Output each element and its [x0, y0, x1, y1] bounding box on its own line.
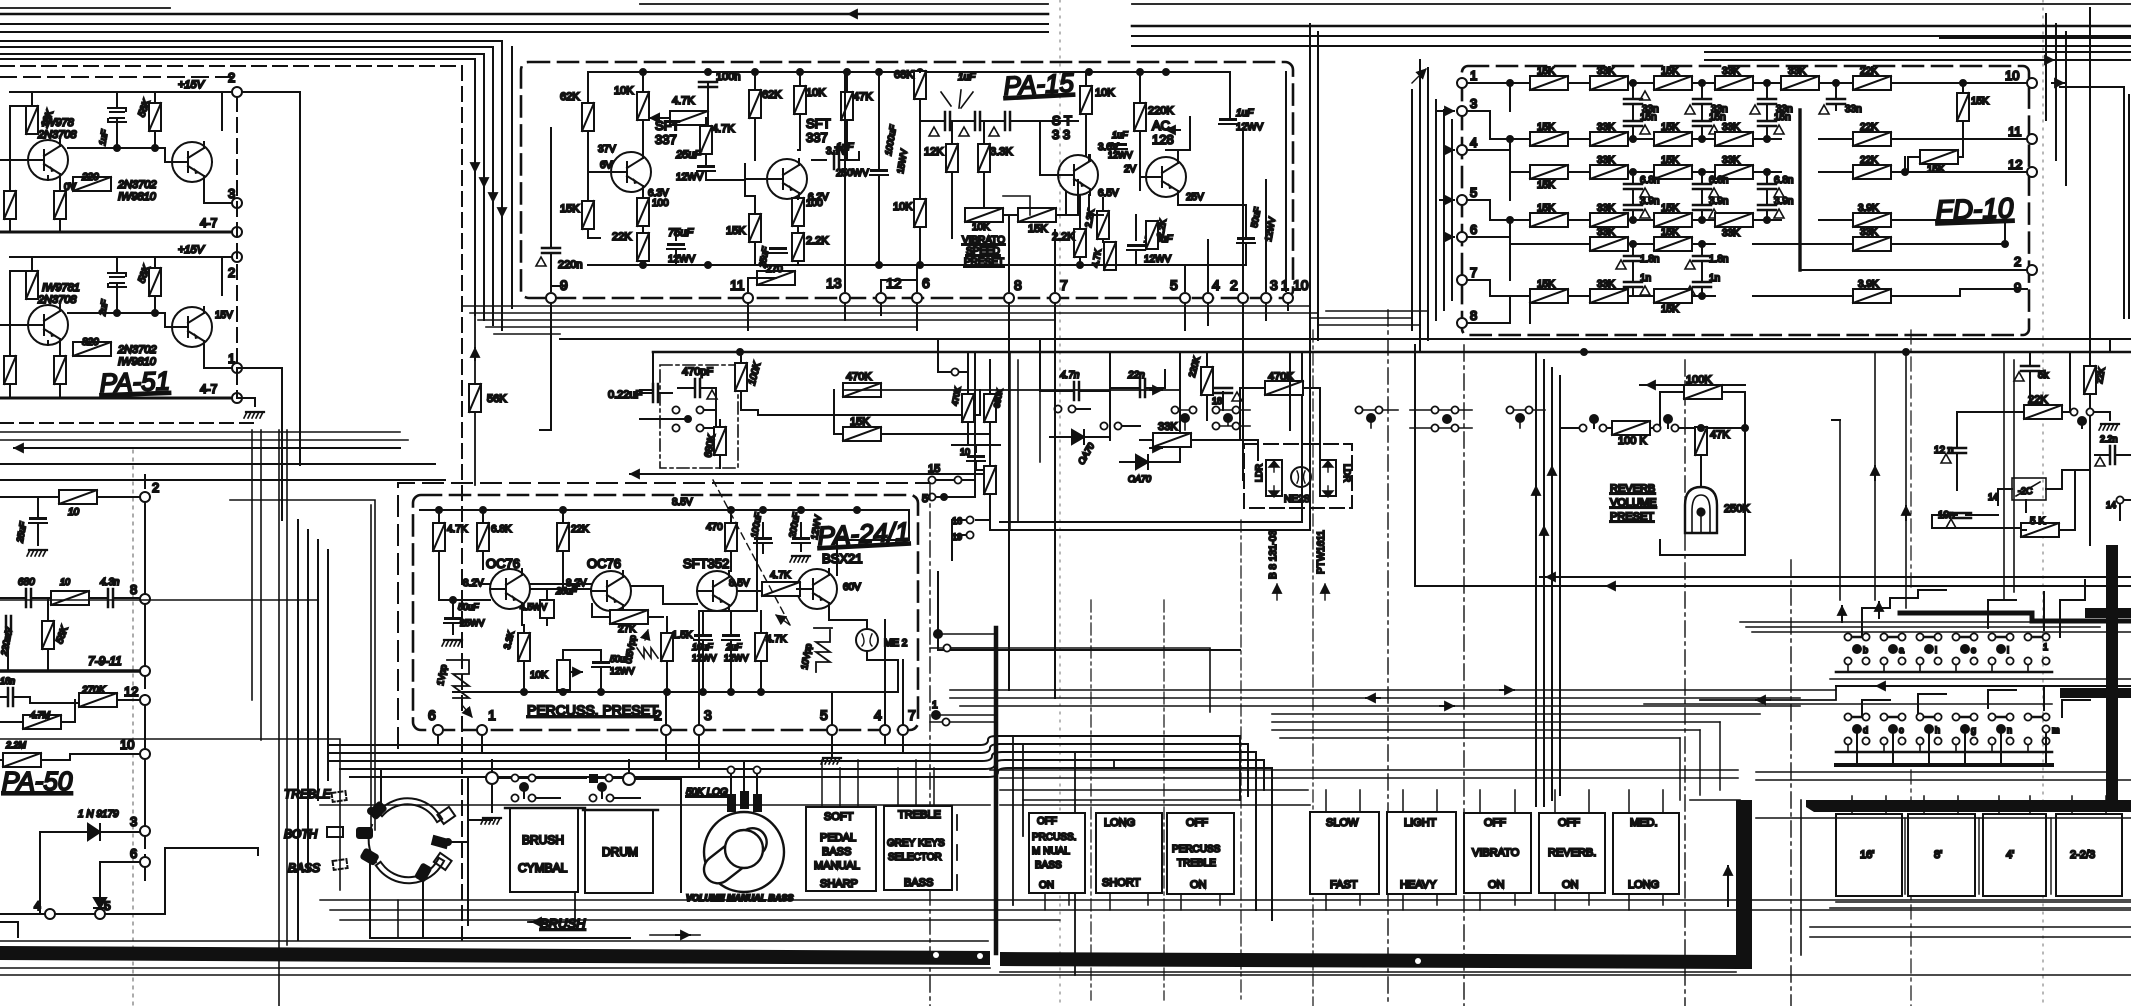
module PA-15 dashed border [521, 62, 1293, 298]
svg-text:470: 470 [706, 522, 723, 533]
svg-text:4.7K: 4.7K [672, 95, 695, 107]
resistor 270K [79, 693, 117, 707]
svg-text:15K: 15K [1537, 203, 1555, 214]
resistor 4.7M [23, 715, 61, 729]
resistor 680K [714, 427, 726, 455]
wire right corner jog [2052, 83, 2129, 318]
wire verticals x938 [938, 339, 1240, 650]
wire vibrato pot wiper [1003, 196, 1030, 215]
svg-text:12 n: 12 n [1934, 445, 1953, 456]
svg-text:4-7: 4-7 [200, 382, 218, 396]
svg-text:3.9K: 3.9K [1858, 279, 1879, 290]
pin 2 pa50 [140, 492, 150, 502]
label 1.5K [661, 633, 673, 661]
svg-text:HEAVY: HEAVY [1400, 879, 1437, 891]
svg-text:i: i [1935, 645, 1937, 655]
svg-text:100: 100 [652, 198, 669, 209]
svg-text:470pF: 470pF [682, 366, 713, 378]
svg-text:M NUAL: M NUAL [1032, 846, 1070, 857]
svg-text:13: 13 [826, 275, 842, 291]
pin 2b [232, 252, 242, 262]
caps 3.9n col3 [1758, 205, 1776, 210]
svg-text:g: g [1971, 725, 1976, 735]
wire reverb net [1660, 428, 1745, 555]
svg-text:15K: 15K [1971, 96, 1989, 107]
svg-text:10: 10 [60, 577, 70, 587]
transistor SFT337 a [611, 152, 651, 192]
svg-text:TREBLE: TREBLE [1177, 858, 1216, 869]
resistor 470 pa24 [725, 523, 737, 551]
svg-text:470K: 470K [846, 371, 872, 383]
pin 3 pa50 [140, 826, 150, 836]
resistor 10K lower cell2 [4, 356, 16, 384]
svg-text:PERCUSS: PERCUSS [1172, 844, 1221, 855]
svg-text:250WV: 250WV [836, 168, 869, 179]
wire bold vertical center fd10 [1798, 110, 1801, 270]
svg-text:15K: 15K [1661, 304, 1679, 315]
capacitor 1uF 12WV d [1109, 143, 1127, 149]
svg-text:4.5WV: 4.5WV [520, 602, 547, 612]
resistor 15K r5b [1654, 237, 1692, 251]
svg-text:33K: 33K [1722, 66, 1740, 77]
svg-text:SFT: SFT [806, 116, 831, 131]
wire top bus line3 [0, 32, 2131, 46]
resistor 15K a [582, 201, 594, 229]
svg-text:6: 6 [922, 275, 930, 291]
switchbox OFF PERCUSS MANUAL BASS ON [1029, 813, 1085, 893]
svg-text:2: 2 [1230, 277, 1238, 293]
ground brush [481, 818, 501, 824]
svg-text:15K: 15K [726, 225, 746, 237]
caps col2 33n [1693, 99, 1711, 104]
svg-text:2.2K: 2.2K [806, 235, 829, 247]
svg-text:337: 337 [655, 132, 677, 147]
svg-text:50K LOG: 50K LOG [686, 787, 728, 798]
resistor 5K right [2021, 523, 2059, 537]
svg-text:12: 12 [886, 275, 902, 291]
resistor 33K mid [1153, 433, 1191, 447]
svg-text:OA70: OA70 [1128, 474, 1151, 484]
transistor SFT353 [1058, 155, 1098, 195]
trimmer -2C box [2012, 478, 2046, 500]
resistor 56K drop line [469, 384, 481, 412]
wire below pa15 horiz bundle [462, 306, 1318, 334]
capacitor 19n [1953, 513, 1971, 518]
svg-text:22K: 22K [1860, 122, 1878, 133]
svg-text:B 8 131-03: B 8 131-03 [1268, 530, 1279, 579]
row B jumper wires [1852, 716, 2042, 718]
wire left jog bottom [398, 900, 565, 938]
pin 5 fd10 [1457, 195, 1467, 205]
resistor 15K r2c [1654, 132, 1692, 146]
svg-text:2: 2 [228, 70, 235, 85]
ground pin5 [821, 758, 841, 764]
svg-text:MED.: MED. [1630, 817, 1658, 829]
svg-text:33K: 33K [1597, 203, 1615, 214]
svg-text:33K: 33K [1722, 122, 1740, 133]
svg-text:128: 128 [1152, 132, 1174, 147]
ground pa50 top [27, 550, 47, 556]
resistor 100 b [792, 198, 804, 226]
pin 8 fd10 [1457, 318, 1467, 328]
svg-text:100uF: 100uF [749, 511, 763, 538]
svg-text:IW9810: IW9810 [118, 191, 157, 203]
svg-text:12WV: 12WV [1144, 254, 1172, 265]
svg-text:BSX21: BSX21 [822, 551, 862, 566]
svg-text:33n: 33n [1845, 104, 1862, 115]
wire fd10 pin feeds [1436, 110, 1454, 112]
svg-text:50uF: 50uF [458, 602, 479, 612]
capacitor 4.3n [108, 589, 113, 607]
svg-text:22K: 22K [612, 231, 632, 243]
wire rail drop left [640, 352, 653, 390]
section dashdot x1911 [1910, 330, 1912, 1006]
resistor 15K r2a [1530, 132, 1568, 146]
resistor 100K reverb h [1612, 421, 1650, 435]
resistor 470K ne2s [1265, 381, 1303, 395]
transistor SFT352 [697, 571, 737, 611]
resistor 15K r3a [1530, 165, 1568, 179]
row B filled dots [1853, 725, 1861, 733]
wire mid v drops [1040, 339, 1223, 440]
svg-text:4-7: 4-7 [200, 216, 218, 230]
caps 6.8n col2 [1693, 184, 1711, 189]
svg-text:n: n [2007, 725, 2012, 735]
wire drop right x1420 [1419, 60, 1421, 345]
wire row12 [0, 697, 145, 749]
svg-text:-2C: -2C [2018, 486, 2033, 496]
contact pair x1510 [1506, 406, 1513, 413]
svg-text:3: 3 [1270, 277, 1278, 293]
wire row8 [0, 598, 145, 666]
resistor 47K [841, 92, 853, 120]
module PA-24/1 outer dashed border [398, 483, 930, 748]
wire bottom rail cell1 [0, 231, 237, 234]
thick bar right vertical [2106, 545, 2118, 805]
svg-text:GREY KEYS: GREY KEYS [887, 838, 945, 849]
switchbox SOFT PEDAL BASS MANUAL SHARP [806, 807, 876, 891]
capacitor 470pF [695, 379, 700, 397]
svg-text:220K: 220K [1148, 105, 1174, 117]
svg-text:4: 4 [1212, 277, 1220, 293]
svg-text:4: 4 [874, 707, 882, 723]
svg-text:2uF: 2uF [97, 299, 110, 317]
wire mid-left arrow line [14, 447, 400, 449]
resistor 15K c [1018, 208, 1056, 222]
svg-text:m: m [2052, 725, 2060, 735]
svg-text:6.8n: 6.8n [1709, 175, 1728, 186]
row 5: wire [1467, 237, 2005, 244]
svg-text:7: 7 [1060, 277, 1068, 293]
svg-text:15K: 15K [1661, 66, 1679, 77]
transistor AC128 [1146, 157, 1186, 197]
resistor 10 top [59, 490, 97, 504]
LDR 1 [1266, 460, 1282, 496]
resistor 22K [637, 233, 649, 261]
pin 2 top [232, 87, 242, 97]
wire left arrows right-mid [1540, 576, 2131, 578]
contacts near oa70 [1100, 422, 1107, 429]
resistor 3.9K r4e [1853, 213, 1891, 227]
transistor Q2 cell1 [172, 142, 212, 182]
resistor 10K d [1080, 86, 1092, 114]
svg-text:SHARP: SHARP [820, 878, 858, 890]
svg-text:15K: 15K [1537, 279, 1555, 290]
svg-text:25V: 25V [1186, 192, 1204, 203]
wire top bus line4 turning down at x502 [0, 41, 502, 330]
svg-text:BRUSH: BRUSH [522, 833, 564, 847]
svg-text:BASS: BASS [822, 846, 851, 858]
pin 5 pa24 [827, 725, 837, 735]
capacitor 2.2n right edge [2110, 446, 2115, 464]
svg-text:2N3702: 2N3702 [117, 344, 157, 356]
contact pair 15 [928, 476, 935, 483]
LDR 2 [1320, 460, 1336, 496]
resistor 33K r6b [1590, 289, 1628, 303]
pin 7-9-11 [140, 666, 150, 676]
svg-text:6.8n: 6.8n [1774, 175, 1793, 186]
svg-text:ON: ON [1190, 879, 1207, 891]
svg-text:8: 8 [130, 582, 137, 597]
svg-text:15n: 15n [1774, 112, 1791, 123]
capacitor 25uF b [769, 247, 787, 253]
svg-text:15K: 15K [1537, 122, 1555, 133]
pin 2 pa24 [661, 725, 671, 735]
svg-text:BASS: BASS [1035, 860, 1062, 871]
resistor 100 a [637, 198, 649, 226]
transistor OC76 b [591, 571, 631, 611]
stator pads [437, 807, 455, 824]
thick bus bar bottom left [0, 946, 990, 965]
svg-text:19: 19 [952, 532, 962, 542]
svg-text:10K: 10K [1095, 87, 1115, 99]
thick bus bar bottom middle [1000, 952, 1738, 969]
switchbox OFF VIBRATO ON [1464, 813, 1531, 893]
resistor 22K r1f [1853, 76, 1891, 90]
pin 4-7b [232, 393, 242, 403]
resistor 15K b [749, 214, 761, 242]
svg-text:22K: 22K [2028, 394, 2048, 406]
svg-text:25uF: 25uF [15, 521, 29, 544]
section dashdot x1464 [1463, 345, 1465, 1006]
svg-text:1uF: 1uF [1236, 108, 1254, 119]
wire top bus line1 [0, 14, 2131, 26]
resistor col a mid [962, 394, 974, 422]
dashdot verticals mid-bottom [1091, 340, 1243, 1000]
capacitor 680 [26, 589, 31, 607]
svg-text:15K: 15K [1661, 227, 1679, 238]
resistor 33K r1e [1781, 76, 1819, 90]
wire right verticals [2070, 339, 2110, 412]
right cluster: cap 5k [2021, 366, 2039, 371]
potentiometer 10K [557, 660, 570, 690]
svg-text:0V: 0V [64, 182, 77, 193]
svg-text:3: 3 [1470, 96, 1477, 111]
svg-text:390K: 390K [992, 388, 1004, 409]
fold line 2 [2042, 0, 2044, 1006]
resistor 22K right h [2024, 405, 2062, 419]
drawbar box 2-2/3 [2056, 814, 2122, 896]
svg-text:12WV: 12WV [610, 666, 635, 676]
svg-text:LDR: LDR [1254, 463, 1264, 482]
wire pa15 pins down fanout [540, 303, 1288, 698]
svg-text:75uF: 75uF [668, 227, 694, 239]
svg-text:7-9-11: 7-9-11 [88, 654, 122, 668]
svg-text:PTW1611: PTW1611 [1316, 530, 1327, 574]
capacitor 100n [699, 82, 717, 87]
svg-text:SFT352: SFT352 [683, 556, 729, 571]
section dashdot x1685 [1684, 360, 1686, 1006]
resistor 22K pa24 [557, 523, 569, 551]
wire lines below drawbar boxes [1810, 927, 2131, 937]
capacitor 100uF [1127, 244, 1145, 250]
wire sft352 base line [699, 540, 757, 611]
wire vertical drop x512 from top [511, 47, 513, 308]
svg-text:PRCUSS.: PRCUSS. [1032, 832, 1076, 843]
arrow right bottom [676, 934, 690, 936]
svg-text:37V: 37V [598, 144, 616, 155]
fold line 1 [1059, 0, 1061, 1006]
svg-text:2.2n: 2.2n [2100, 434, 2118, 444]
svg-text:3: 3 [228, 186, 235, 201]
svg-text:7: 7 [908, 707, 916, 723]
wire box feed stubs [822, 760, 934, 806]
svg-text:1.8n: 1.8n [1709, 254, 1728, 265]
resistor 4.7K h [670, 111, 708, 125]
svg-text:+15V: +15V [178, 79, 206, 91]
svg-text:60V: 60V [843, 582, 861, 593]
svg-text:1.5K: 1.5K [672, 630, 693, 641]
svg-text:4: 4 [1470, 135, 1477, 150]
svg-text:25uF: 25uF [555, 586, 577, 596]
resistor 220 vert cell1 [54, 191, 66, 219]
switchbox DRUM [585, 810, 653, 893]
transistor Q1 cell1 [28, 140, 68, 180]
svg-text:2: 2 [228, 265, 235, 280]
svg-text:ON: ON [1039, 880, 1054, 891]
caps 1.8n col2 [1693, 256, 1711, 261]
svg-text:OFF: OFF [1484, 817, 1506, 829]
pin 1 [232, 363, 242, 373]
wire right fold bundle down x1318 [1317, 32, 1319, 340]
wire drop bundle from fd10 left [1412, 90, 1452, 350]
svg-text:ME 2: ME 2 [884, 638, 908, 649]
wire bus above boxes [990, 770, 1738, 790]
wire bold rail y352 [653, 351, 2131, 354]
svg-text:33K: 33K [1788, 66, 1806, 77]
svg-text:VOLUME: VOLUME [1610, 497, 1656, 509]
svg-text:10Vpp: 10Vpp [799, 643, 813, 670]
svg-text:4.7M: 4.7M [30, 710, 51, 720]
svg-text:PEDAL: PEDAL [820, 832, 856, 844]
svg-text:9: 9 [560, 277, 568, 293]
svg-text:6: 6 [130, 846, 137, 861]
wire contact step right [951, 648, 1210, 712]
caps 1n col2 [1693, 282, 1711, 287]
wire right column fd10 [1905, 157, 2005, 244]
svg-text:56K: 56K [54, 624, 71, 646]
contacts right cluster [2070, 408, 2077, 415]
pin 10 fd10 [2027, 78, 2037, 88]
svg-text:1: 1 [228, 351, 235, 366]
svg-text:OC76: OC76 [486, 556, 520, 571]
wire under bar thin [0, 941, 2131, 975]
wire sft353 nets [1040, 121, 1103, 242]
svg-text:4.7n: 4.7n [1060, 370, 1080, 381]
wire mid-left line2 [0, 464, 445, 480]
transistor Q3 cell2 [28, 305, 68, 345]
wire mid fan verticals [1013, 736, 1114, 975]
resistor 15K r6c [1654, 289, 1692, 303]
svg-text:62K: 62K [560, 91, 580, 103]
switchbox OFF REVERB ON [1539, 813, 1605, 893]
svg-text:PRESET: PRESET [1610, 511, 1654, 523]
wire sft337a emitter [588, 172, 643, 265]
pin 1 pa24 [477, 725, 487, 735]
svg-text:2-2/3: 2-2/3 [2070, 849, 2095, 861]
caps col4 33n [1827, 99, 1845, 104]
svg-text:VIBRATO: VIBRATO [962, 235, 1005, 246]
wire left-center verticals [252, 430, 287, 1006]
caps 3.9n col1 [1624, 205, 1642, 210]
row B drops to bus [1857, 733, 2046, 765]
svg-text:VOLUME MANUAL BASS: VOLUME MANUAL BASS [686, 893, 793, 903]
svg-text:5: 5 [820, 707, 828, 723]
svg-text:2uF: 2uF [725, 642, 742, 652]
svg-text:3.9n: 3.9n [1640, 196, 1659, 207]
module PA-50 dashed border [0, 423, 258, 870]
svg-text:1 N 9179: 1 N 9179 [78, 809, 119, 820]
svg-text:12WV: 12WV [1108, 150, 1133, 160]
wire arrow to left [1640, 384, 1745, 386]
thick bus below row B [1836, 763, 2052, 767]
svg-text:8.5V: 8.5V [672, 497, 693, 508]
capacitor 1uF top right [1219, 118, 1237, 124]
svg-text:8: 8 [1014, 277, 1022, 293]
pin 2 fd10 [2027, 265, 2037, 275]
wire right-middle verticals [1840, 352, 2014, 608]
pin 3 fd10 [1457, 106, 1467, 116]
pin row pa15 [546, 293, 556, 303]
capacitor 1uF 250WV [834, 151, 839, 169]
lamp ME2 [856, 629, 878, 651]
svg-text:4.7K: 4.7K [712, 123, 735, 135]
svg-text:22K: 22K [1860, 155, 1878, 166]
capacitor 1000uF [870, 169, 888, 175]
wire +15V rail cell1 [10, 92, 237, 130]
svg-text:6: 6 [1470, 222, 1477, 237]
resistor 4.7K pa24 [433, 523, 445, 551]
svg-text:3.3K: 3.3K [990, 146, 1013, 158]
svg-text:h: h [1935, 725, 1940, 735]
capacitor 25uF a [697, 165, 715, 171]
contact pair reverb right [1653, 424, 1660, 431]
capacitor 25uF pa50 [29, 517, 47, 523]
svg-text:3 3: 3 3 [1052, 127, 1070, 142]
svg-text:12: 12 [2008, 157, 2022, 172]
capacitor 220n [542, 248, 560, 253]
svg-text:PA-50: PA-50 [2, 766, 73, 796]
svg-text:BASS: BASS [904, 877, 933, 889]
svg-text:22n: 22n [1127, 370, 1145, 381]
resistor 220 cell1 [73, 177, 111, 191]
svg-text:15V: 15V [215, 310, 233, 321]
svg-text:OFF: OFF [1186, 817, 1208, 829]
caps 1n col1 [1624, 282, 1642, 287]
switchbox MED LONG [1613, 813, 1679, 894]
resistor 6.8K pa24 [477, 523, 489, 551]
wire bottom pa50 [0, 848, 258, 914]
